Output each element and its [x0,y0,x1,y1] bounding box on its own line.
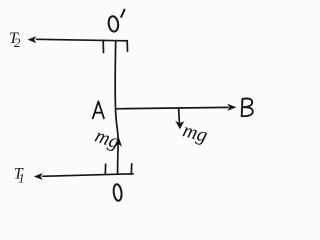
node T1 arrowhead [34,173,43,180]
wire floor right bend [130,164,132,174]
node B arrowhead [227,104,236,111]
wire floor line / T1 arrow shaft [43,174,134,177]
node mg down arrowhead [175,121,184,129]
node T1 label [14,165,25,185]
wire floor hatch tick [104,164,106,174]
wire ceiling right bend [126,41,128,52]
wire ceiling line / T2 arrow shaft [37,39,128,41]
wire mg down arrow shaft [178,108,181,123]
wire bar A-B shaft [116,107,229,108]
node mg up arrowhead [115,136,122,147]
wire string O'-A-O [115,41,118,174]
svg-text:1: 1 [18,170,25,185]
node O label [113,184,123,201]
node O' label [108,10,125,32]
wire ceiling hatch tick [102,40,104,52]
node A label [93,101,104,118]
node T2 arrowhead [28,36,37,43]
node T2 label [9,30,21,50]
node B label [242,99,253,117]
svg-text:2: 2 [14,35,21,50]
